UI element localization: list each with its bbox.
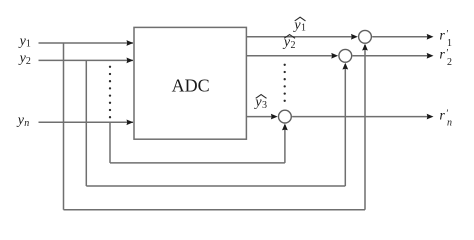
- wire riser V3 up to node S3: [284, 125, 286, 163]
- svg-text:3: 3: [262, 100, 267, 111]
- svg-text:2: 2: [447, 57, 452, 68]
- svg-text:r: r: [439, 29, 445, 44]
- wire tap T3 from yn down: [109, 122, 111, 163]
- wire tap T2 from y2 down: [85, 60, 87, 186]
- wire tap T1 from y1 down: [63, 43, 65, 210]
- vertical ellipsis left (between y2 and yn): [109, 66, 111, 68]
- svg-text:n: n: [447, 118, 452, 129]
- wire input yn: [39, 121, 134, 123]
- svg-text:2: 2: [291, 40, 296, 51]
- arrowhead feedback up into S2: [342, 63, 348, 70]
- arrowhead output r2: [427, 53, 434, 59]
- vertical ellipsis right (between S2 and S3): [284, 64, 286, 66]
- svg-text:r: r: [439, 108, 445, 123]
- wire feedback F1 bottom: [64, 209, 366, 211]
- wire output rn: [292, 116, 429, 118]
- arrowhead into ADC from y1: [127, 40, 134, 46]
- arrowhead yhat3 into S3: [271, 114, 278, 120]
- wire riser V1 up to node S1: [364, 45, 366, 210]
- wire ADC output yhat2: [246, 55, 333, 57]
- summing node S1: [359, 30, 372, 43]
- summing node S3: [279, 110, 292, 123]
- arrowhead yhat2 into S2: [331, 53, 338, 59]
- svg-text:r: r: [439, 48, 445, 63]
- svg-text:2: 2: [26, 56, 31, 67]
- wire ADC output yhat1: [246, 36, 353, 38]
- wire riser V2 up to node S2: [344, 64, 346, 186]
- arrowhead feedback up into S1: [362, 44, 368, 51]
- wire input y1: [39, 42, 134, 44]
- wire output r1: [372, 36, 429, 38]
- wire input y2: [39, 59, 134, 61]
- svg-text:1: 1: [26, 39, 31, 50]
- svg-text:ADC: ADC: [172, 75, 210, 95]
- arrowhead into ADC from yn: [127, 120, 134, 126]
- arrowhead into ADC from y2: [127, 58, 134, 64]
- svg-text:n: n: [24, 118, 29, 129]
- wire feedback F3: [110, 162, 285, 164]
- hat of yhat1: [295, 17, 306, 21]
- svg-text:1: 1: [301, 23, 306, 34]
- summing node S2: [339, 49, 352, 62]
- hat of yhat3: [256, 95, 267, 99]
- arrowhead feedback up into S3: [282, 124, 288, 131]
- arrowhead output r1: [427, 34, 434, 40]
- arrowhead yhat1 into S1: [351, 34, 358, 40]
- wire ADC output yhat3: [246, 116, 273, 118]
- wire feedback F2: [86, 185, 345, 187]
- hat of yhat2: [284, 35, 295, 39]
- ADC block U1: [134, 27, 246, 139]
- arrowhead output rn: [427, 114, 434, 120]
- wire output r2: [353, 55, 430, 57]
